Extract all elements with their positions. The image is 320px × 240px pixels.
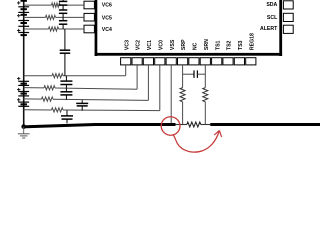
battery cell B6 plates [18,81,29,83]
wire SRN to rail [204,102,206,125]
red annotation circle [160,116,181,137]
svg-text:VC1: VC1 [147,40,153,50]
resistor R-SRN [203,88,208,102]
battery cell B1 plates [18,7,29,9]
wire row VC1 [24,65,149,101]
battery cell B5 plates [18,33,29,36]
battery cell B2 plates [18,12,29,14]
capacitor C5 (VC3-VC2) [60,76,72,89]
svg-text:TS3: TS3 [238,40,244,50]
capacitor C4 (VC4-VC3) [60,29,70,76]
svg-text:VC0: VC0 [158,40,164,50]
pin SDA (right) [266,1,293,9]
wire row VC2 [24,65,137,90]
battery cell B11 plates [18,105,29,107]
red annotation arrow [176,130,222,152]
pin VC0 (bottom) [155,40,165,65]
capacitor C8 (VC0-VSS) [61,111,73,124]
capacitor C1 (top, to cropped row above) [59,0,67,5]
pin VC2 (bottom) [132,40,142,65]
wire SRP to rail [182,102,184,125]
pin NC (bottom) [189,42,199,65]
pin TS1 (bottom) [212,40,222,64]
pin TS3 (bottom) [234,40,244,64]
svg-text:SDA: SDA [266,2,277,8]
svg-text:SRN: SRN [204,39,210,50]
pin ALERT (right) [260,25,293,33]
PACK- rail (thick) [22,125,175,127]
battery cell B8 plates [18,92,29,94]
pin VC5 (left) [84,13,112,21]
svg-text:VSS: VSS [170,39,176,50]
wire SRN column [204,65,206,88]
wire row VC0 [24,65,160,112]
wire SRP column [182,65,184,88]
wire row VC6 [24,3,84,7]
battery + sign [17,77,20,80]
wire row VC5 [24,15,84,19]
wire row VC4 [24,27,84,31]
svg-text:VC5: VC5 [102,15,112,21]
wire thin rail segment [176,124,187,126]
battery cell B0 plates [21,0,27,2]
capacitor C3 (VC5-VC4) [59,17,67,29]
capacitor C6 (VC2-VC1) [60,88,72,99]
svg-text:SCL: SCL [267,15,278,21]
svg-text:ALERT: ALERT [260,26,278,32]
capacitor C-SRP/SRN filter [183,70,206,78]
battery cell B10 plates [18,102,29,104]
svg-text:VC3: VC3 [124,40,130,50]
capacitor C2 (VC6-VC5) [59,5,67,17]
battery + sign [17,29,20,32]
battery + sign [17,14,20,17]
red circle tail [173,134,176,140]
svg-text:VC6: VC6 [102,2,112,8]
battery cell B9 plates [18,95,29,97]
battery stack column [23,0,25,127]
pin VC6 (left) [84,1,112,9]
resistor R-SRP [180,88,185,102]
pin SRP (bottom) [178,39,188,65]
battery cell B4 plates [18,25,29,27]
battery + sign [17,1,20,4]
sense resistor R-SNS [187,122,201,127]
ground [18,127,30,138]
svg-text:REG18: REG18 [249,33,255,50]
pin SRN (bottom) [200,39,210,65]
pin TS2 (bottom) [223,40,233,64]
battery cell B3 plates [18,21,29,24]
pin REG18 (bottom) [246,33,256,65]
svg-text:NC: NC [193,42,199,50]
wire row VC3 [24,65,126,78]
svg-text:SRP: SRP [181,39,187,50]
pin VSS (bottom) [166,39,176,65]
junction battery- / rail [21,124,26,129]
capacitor C7 (VC1-VC0) [76,100,88,111]
pin VC4 (left) [84,25,112,33]
IC body U1 [95,0,283,56]
pin VC3 (bottom) [121,40,131,65]
pin VC1 (bottom) [143,40,153,65]
battery cell B7 plates [18,84,29,86]
battery + sign [17,98,20,101]
pin SCL (right) [267,13,293,21]
svg-text:VC2: VC2 [136,40,142,50]
svg-text:TS1: TS1 [215,40,221,50]
wire VSS to PACK- rail [170,65,172,124]
battery + sign [17,88,20,91]
svg-text:VC4: VC4 [102,27,112,33]
svg-text:TS2: TS2 [227,40,233,50]
